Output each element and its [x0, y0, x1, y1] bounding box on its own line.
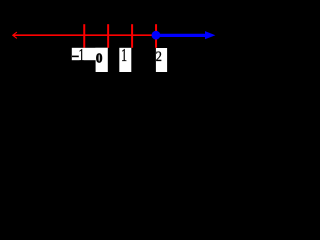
svg-text:2: 2: [156, 48, 162, 64]
svg-text:1: 1: [78, 46, 84, 66]
svg-text:1: 1: [121, 46, 127, 66]
svg-text:0: 0: [96, 51, 103, 66]
